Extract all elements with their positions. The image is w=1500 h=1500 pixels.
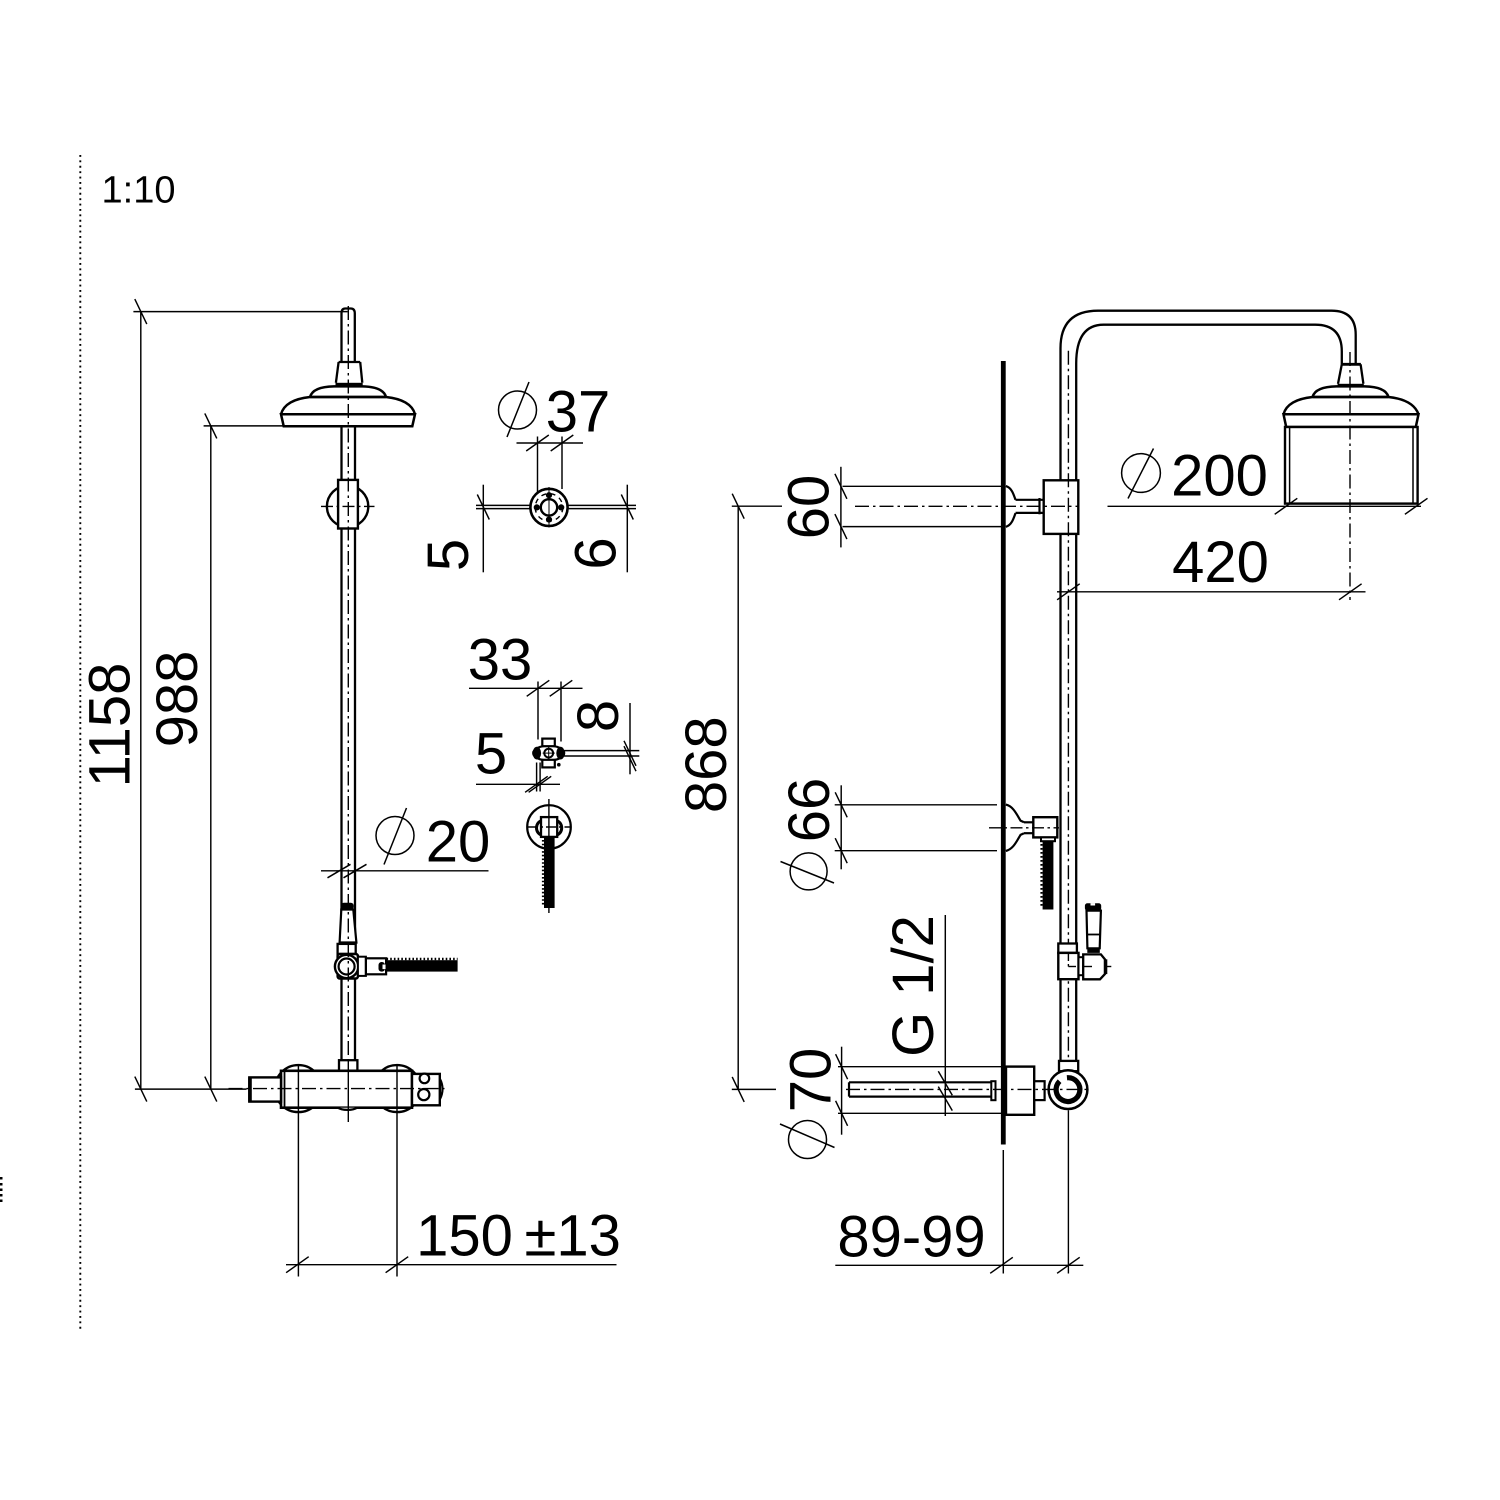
front view: volume valve bar socket [379,962,386,972]
side view: riser wall bracket [1044,480,1079,534]
side view: volume valve ribbed handle [1042,841,1054,909]
side view: head drum [1285,427,1418,504]
side view: head connector cone [1338,364,1363,384]
dimension diameter 70 [780,1047,1005,1159]
scale label 1:10 [102,170,176,212]
side view: outlet collar [1034,1081,1044,1100]
side view: outlet center line [846,1088,1089,1090]
svg-text:6: 6 [564,537,629,569]
detail side: cross handle side view [533,739,565,768]
svg-text:1:10: 1:10 [102,170,176,212]
front view: volume valve black lever bar [386,959,458,972]
side view: volume valve center line [989,827,1059,829]
svg-text:G 1/2: G 1/2 [881,915,946,1057]
dimension G 1/2 [938,915,952,1116]
detail union: cross handle top view [530,487,567,528]
svg-text:20: 20 [426,810,491,875]
dimension diameter 20 label [321,808,489,878]
side view: outlet pipe end flange [991,1081,995,1100]
svg-text:988: 988 [145,651,210,748]
side view: diverter stop body [1083,954,1106,979]
svg-text:5: 5 [416,539,481,571]
svg-text:868: 868 [674,716,739,813]
front view: volume valve body block [338,954,358,979]
front view: thermostat right outlet [412,1074,443,1106]
side view: volume valve body [1033,817,1057,841]
side view: diverter lever [1085,903,1101,953]
dimension diameter 200 [1108,449,1428,515]
edge marks (clipped text at left margin) [0,1177,3,1202]
side view: riser center line [1067,351,1069,1274]
dimension diameter 66 [781,785,998,890]
side view: diverter collar [1058,944,1077,953]
dimension 420 [1057,584,1366,600]
side view: riser pipe with top bend [1061,311,1356,1061]
front view: bell flange [281,414,415,426]
border dotted line [79,155,81,1331]
svg-text:33: 33 [468,628,533,693]
front view: ball joint sphere [327,486,368,527]
side view: diverter connector [1079,957,1084,975]
detail: black ribbed lever [543,837,555,908]
front view: thermostat body [281,1071,412,1110]
detail union: dimension 37 lines [517,435,584,501]
front view: thermostat mounting bosses [275,1065,421,1112]
svg-text:37: 37 [546,380,611,445]
front view: volume valve handle shaft [340,910,357,943]
svg-text:60: 60 [777,475,842,540]
front view: volume valve flange [338,944,356,954]
svg-text:70: 70 [779,1048,844,1113]
side view: head center line [1349,352,1351,600]
detail union: diameter 37 label [499,382,537,437]
svg-text:8: 8 [566,700,631,732]
front view: riser pipe upper segment [342,426,356,480]
svg-text:420: 420 [1172,530,1269,595]
side view: outlet supply pipe [849,1082,991,1096]
svg-text:5: 5 [475,722,507,787]
front view: riser pipe mid segment [342,529,356,943]
front view: head tip [342,309,355,363]
front view: head cone [336,362,362,383]
front view: volume valve side connector [358,957,366,976]
side view: bell dome [1284,386,1419,414]
svg-text:89-99: 89-99 [837,1205,985,1270]
front view: volume valve ring [335,955,358,978]
front view: bell dome [281,386,415,414]
detail side: dimension 8 [564,703,639,774]
side view: bell flange [1284,414,1419,427]
front view: boss extension lines [298,1064,397,1277]
front view: riser pipe lower segment [342,979,356,1061]
svg-text:200: 200 [1171,444,1268,509]
svg-text:1158: 1158 [78,663,143,788]
side view: head connector joint [1341,363,1361,366]
dimension 60 [835,467,1001,548]
dimension 1158 [133,299,347,1102]
front view: thermostat pipe collar [339,1060,357,1071]
dimension 89-99 [835,1150,1083,1274]
front view: thermostat center line [229,1088,445,1090]
side view: supply center line [855,505,1078,507]
front view: head cone nut band [336,383,363,387]
side view: outlet escutcheon [1006,1067,1034,1115]
front view: thermostat left inlet [249,1077,281,1101]
detail: escutcheon with lever front view [527,799,571,913]
svg-text:150 ±13: 150 ±13 [416,1204,621,1269]
svg-text:66: 66 [777,778,842,843]
front view: ball joint center line [321,505,375,507]
front view: volume valve handle cap [341,903,354,910]
side view: outlet elbow [1049,1070,1088,1109]
side view: riser lower collar [1059,1061,1078,1071]
side view: diverter body [1058,953,1078,979]
dimension 150 +-13 [286,1257,617,1273]
front view: ball joint sleeve [338,480,358,529]
side view: head cone nut band [1338,384,1364,388]
side view: wall line [1001,361,1006,1145]
side view: volume valve cone at wall [1006,805,1034,851]
dimension 988 [204,413,284,1101]
detail union: center and dimension lines 5 / 6 [476,485,636,573]
side view: supply escutcheon cone at wall [1006,486,1044,527]
dimension 868 [732,494,782,1102]
front view: column center line [347,306,349,1122]
side view: diverter center line [1068,953,1111,967]
